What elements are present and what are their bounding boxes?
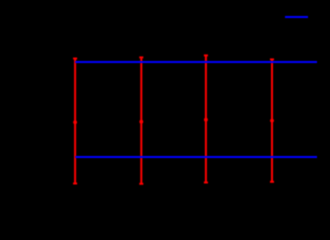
error bar 3 bottom cap — [204, 182, 208, 184]
error bar 1 top cap — [73, 58, 77, 60]
error bar 2 vertical line — [140, 57, 142, 183]
error bar 4 center marker — [270, 119, 274, 123]
error bar 4 bottom cap — [270, 181, 274, 183]
error bar 3 center marker — [204, 118, 208, 122]
error bar 1 bottom cap — [73, 183, 77, 185]
legend blue line sample — [285, 16, 308, 18]
error bar 4 vertical line — [271, 59, 273, 181]
lower blue horizontal line — [75, 156, 317, 158]
upper blue horizontal line — [75, 61, 317, 63]
error bar 3 — [204, 55, 208, 182]
error bar 2 top cap — [139, 56, 143, 58]
error bar 1 center marker — [73, 120, 77, 124]
error bar 2 center marker — [139, 120, 143, 124]
error bar 1 vertical line — [74, 59, 76, 184]
error bar 2 bottom cap — [139, 183, 143, 185]
error bar 2 — [139, 57, 143, 183]
error bar 4 — [270, 59, 274, 181]
error bar 3 top cap — [204, 54, 208, 56]
error bar 1 — [73, 59, 77, 184]
error bar 3 vertical line — [205, 55, 207, 182]
error bar 4 top cap — [270, 58, 274, 60]
